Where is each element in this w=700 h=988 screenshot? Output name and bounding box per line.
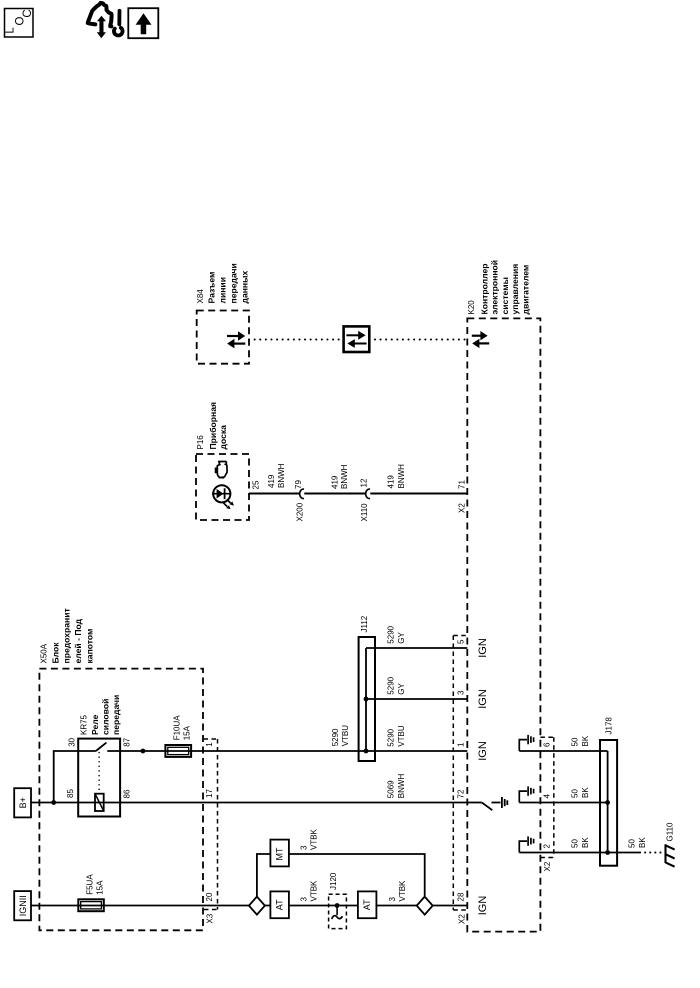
data wire X84 to gateway (dotted) bbox=[249, 339, 344, 341]
svg-text:G110: G110 bbox=[666, 822, 675, 842]
svg-text:3: 3 bbox=[457, 690, 466, 695]
inline connector X110 pin 12 bbox=[366, 489, 370, 498]
wire K20 pin2 to J178 and G110 (50 BK) bbox=[519, 852, 640, 854]
svg-text:X200: X200 bbox=[296, 502, 305, 521]
svg-text:71: 71 bbox=[457, 480, 466, 489]
wire P16 pin25 to K20 pin71 (419 BNWH) bbox=[249, 493, 300, 495]
K20 internal case ground pin4 bbox=[519, 786, 533, 802]
inline connector X200 pin 79 bbox=[300, 489, 304, 498]
svg-text:2: 2 bbox=[543, 844, 552, 849]
connector X3 strip bbox=[204, 739, 218, 910]
up-arrow legend box bbox=[128, 8, 158, 38]
connector X2 strip (K20 right) bbox=[540, 737, 553, 857]
svg-text:5290VTBU: 5290VTBU bbox=[331, 725, 350, 747]
branch to MT bbox=[257, 854, 425, 897]
svg-text:C: C bbox=[22, 9, 34, 17]
svg-text:K20Контроллерэлектроннойсистем: K20Контроллерэлектроннойсистемыуправлени… bbox=[467, 260, 531, 315]
svg-text:3VTBK: 3VTBK bbox=[300, 828, 319, 850]
relay coil bbox=[95, 794, 104, 811]
svg-text:419BNWH: 419BNWH bbox=[387, 464, 406, 489]
svg-text:20: 20 bbox=[205, 892, 214, 901]
svg-text:5069BNWH: 5069BNWH bbox=[386, 774, 405, 799]
wire K20 pin4 to J178 (50 BK) bbox=[519, 802, 607, 804]
K20 pin72 internal switch to ground bbox=[467, 802, 482, 804]
fuse F5UA 15A bbox=[78, 899, 104, 911]
svg-text:MT: MT bbox=[275, 847, 285, 860]
svg-text:419BNWH: 419BNWH bbox=[330, 464, 349, 489]
svg-text:50BK: 50BK bbox=[628, 837, 647, 848]
svg-text:X110: X110 bbox=[360, 503, 369, 522]
label K20 bbox=[467, 260, 531, 315]
wrench of icon bbox=[114, 11, 123, 36]
svg-text:P16Приборнаядоска: P16Приборнаядоска bbox=[196, 402, 228, 450]
terminal B+ bbox=[14, 788, 31, 817]
K20 internal case ground pin6 bbox=[519, 735, 533, 751]
svg-text:3VTBK: 3VTBK bbox=[388, 880, 407, 902]
svg-text:5290VTBU: 5290VTBU bbox=[386, 725, 405, 747]
wire riser to relay pin 30 bbox=[54, 751, 96, 803]
up-arrow glyph bbox=[136, 13, 152, 34]
svg-text:X2: X2 bbox=[458, 503, 467, 513]
up-down arrow of icon bbox=[97, 16, 106, 39]
svg-text:L: L bbox=[5, 27, 17, 34]
label X50A bbox=[40, 608, 95, 663]
svg-text:AT: AT bbox=[275, 899, 285, 910]
relay coil link (dotted) bbox=[98, 753, 100, 793]
svg-text:12: 12 bbox=[360, 478, 369, 487]
ground G110 bbox=[666, 844, 675, 866]
module K20 Контроллер электронной системы управления двигателем bbox=[467, 318, 540, 931]
svg-text:F10UA15A: F10UA15A bbox=[173, 715, 192, 741]
svg-text:J112: J112 bbox=[360, 615, 369, 632]
svg-text:50BK: 50BK bbox=[570, 735, 589, 746]
MT box bbox=[270, 840, 289, 867]
svg-text:IGN: IGN bbox=[477, 741, 489, 761]
relay contact to fuse F10UA bbox=[107, 750, 467, 752]
svg-text:419BNWH: 419BNWH bbox=[267, 463, 286, 488]
connector X2 strip (K20 left) bbox=[453, 636, 467, 911]
svg-text:IGNII: IGNII bbox=[18, 895, 28, 916]
svg-text:1: 1 bbox=[457, 742, 466, 747]
svg-text:1: 1 bbox=[205, 742, 214, 747]
svg-text:B+: B+ bbox=[18, 797, 28, 808]
svg-text:25: 25 bbox=[252, 480, 261, 489]
splice J120 bbox=[329, 894, 347, 928]
svg-text:IGN: IGN bbox=[477, 689, 489, 709]
bus bar J112 bbox=[359, 637, 375, 761]
svg-text:J178: J178 bbox=[605, 717, 614, 735]
svg-text:5290GY: 5290GY bbox=[386, 625, 405, 643]
svg-text:KR75Релесиловойпередачи: KR75Релесиловойпередачи bbox=[80, 695, 122, 735]
vehicle service icon bbox=[88, 3, 112, 27]
svg-text:86: 86 bbox=[123, 789, 132, 798]
svg-text:79: 79 bbox=[294, 480, 303, 489]
svg-text:72: 72 bbox=[457, 789, 466, 798]
wire J112 to K20 pin3 (5290 GY) bbox=[366, 698, 467, 700]
svg-text:50BK: 50BK bbox=[570, 787, 589, 798]
splice diamond 1 bbox=[249, 897, 265, 915]
svg-text:30: 30 bbox=[68, 737, 77, 746]
serial data arrows in X84 bbox=[227, 331, 245, 348]
wire K20 pin6 to J178 (50 BK) bbox=[519, 750, 607, 752]
indicator LED icon in P16 bbox=[212, 485, 231, 502]
bus bar J178 bbox=[600, 740, 617, 866]
svg-text:X2: X2 bbox=[458, 914, 467, 924]
relay KR75 Реле силовой передачи bbox=[78, 739, 120, 817]
splice diamond 2 bbox=[417, 897, 433, 915]
K20 internal case ground pin2 bbox=[519, 836, 533, 852]
wire J112 to K20 pin5 (5290 GY) bbox=[366, 647, 467, 649]
fuse block X50A Блок предохранителей - Под капотом bbox=[39, 669, 203, 931]
svg-text:X50AБлокпредохранителей - Подк: X50AБлокпредохранителей - Подкапотом bbox=[40, 608, 95, 663]
engine icon in P16 bbox=[215, 462, 227, 479]
svg-text:X3: X3 bbox=[206, 913, 215, 923]
svg-text:4: 4 bbox=[543, 794, 552, 799]
data gateway symbol bbox=[344, 326, 370, 352]
dotted wire to G110 bbox=[640, 852, 661, 854]
wire B+ row (to K20 pin72, 5069 BNWH) bbox=[31, 802, 467, 804]
junction dot on 87 wire bbox=[141, 749, 146, 754]
svg-text:50BK: 50BK bbox=[570, 837, 589, 848]
svg-text:AT: AT bbox=[362, 899, 372, 910]
label KR75 bbox=[80, 695, 122, 735]
svg-text:28: 28 bbox=[457, 892, 466, 901]
svg-text:87: 87 bbox=[123, 737, 132, 746]
fuse F10UA 15A bbox=[165, 745, 191, 757]
relay switch blade bbox=[96, 743, 107, 751]
label P16 bbox=[196, 402, 228, 450]
LOC legend box bbox=[5, 9, 34, 38]
data wire gateway to K20 (dotted) bbox=[369, 339, 467, 341]
connector X84 Разъем линии передачи данных bbox=[197, 311, 249, 364]
label X84 bbox=[196, 263, 250, 303]
svg-text:5290GY: 5290GY bbox=[386, 676, 405, 694]
svg-text:3VTBK: 3VTBK bbox=[300, 880, 319, 902]
instrument cluster P16 Приборная доска bbox=[196, 454, 249, 520]
svg-text:17: 17 bbox=[205, 789, 214, 798]
svg-text:X84Разъемлиниипередачиданных: X84Разъемлиниипередачиданных bbox=[196, 263, 250, 303]
svg-text:X2: X2 bbox=[543, 861, 552, 871]
svg-text:F5UA15A: F5UA15A bbox=[86, 874, 105, 895]
svg-text:J120: J120 bbox=[329, 872, 338, 890]
junction on B+ wire bbox=[51, 800, 56, 805]
AT box 2 bbox=[358, 891, 377, 918]
svg-text:IGN: IGN bbox=[477, 896, 489, 916]
wire IGNII row (3 VTBK) bbox=[31, 905, 467, 907]
svg-text:IGN: IGN bbox=[477, 638, 489, 658]
svg-text:6: 6 bbox=[543, 742, 552, 747]
AT box 1 bbox=[270, 891, 289, 918]
serial data arrows in K20 bbox=[472, 331, 489, 348]
svg-text:85: 85 bbox=[66, 789, 75, 798]
svg-text:5: 5 bbox=[457, 639, 466, 644]
terminal IGNII bbox=[14, 891, 31, 920]
